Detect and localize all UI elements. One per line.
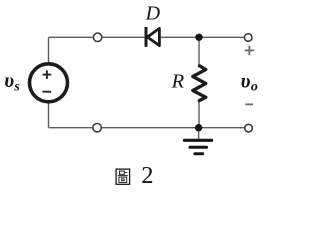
svg-text:υo: υo: [241, 70, 258, 94]
svg-text:2: 2: [141, 162, 153, 189]
svg-text:D: D: [145, 3, 161, 25]
svg-text:R: R: [171, 71, 185, 93]
svg-text:υs: υs: [4, 70, 20, 95]
